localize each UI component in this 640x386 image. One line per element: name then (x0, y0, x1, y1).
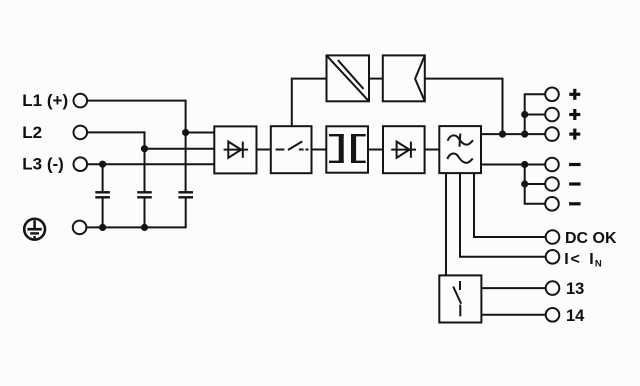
wire rectifier to switch (257, 149, 271, 151)
node earth-C1 junction (99, 224, 106, 231)
terminal plus2 (545, 108, 559, 122)
wire earth rail (87, 226, 186, 228)
wire L1 horizontal (87, 100, 186, 102)
transformer block T1 (326, 126, 368, 172)
svg-text:L3 (-): L3 (-) (22, 155, 64, 174)
terminal 14 (546, 308, 560, 322)
svg-text:I: I (589, 251, 593, 268)
terminal 13 (546, 281, 560, 295)
capacitor C2 (137, 192, 152, 197)
filter symbol upper sine with bar (448, 134, 473, 147)
node plus riser junction (521, 131, 528, 138)
wire filter to I<In terminal (460, 173, 546, 257)
switch block S1 (271, 126, 312, 173)
terminal minus3 (545, 197, 559, 211)
wire C3 bottom lead (185, 198, 187, 228)
wire plus middle branch (525, 114, 546, 116)
svg-text:L1 (+): L1 (+) (22, 91, 68, 110)
node plus bus top-branch junction (499, 131, 506, 138)
plus sign 1 (569, 89, 580, 100)
transformer symbol in T1 (329, 134, 366, 163)
node earth-C2 junction (141, 224, 148, 231)
terminal I<In (546, 250, 560, 264)
wire converter to chevron block (369, 78, 383, 80)
wire chevron block to output bus (425, 79, 503, 135)
relay block K1 (439, 275, 481, 322)
plus sign 2 (569, 109, 580, 120)
diode symbol in U1 (224, 142, 249, 158)
svg-text:<: < (571, 251, 580, 268)
wire filter to relay box (445, 173, 447, 275)
rectifier block U1 (214, 126, 256, 173)
minus sign 1 (569, 163, 581, 166)
terminal DC OK (546, 230, 560, 244)
terminal L1 (74, 94, 88, 108)
svg-text:L2: L2 (22, 123, 42, 142)
svg-text:14: 14 (566, 307, 585, 325)
chevron symbol in block B (415, 55, 425, 101)
wire filter to DC OK terminal (474, 173, 546, 237)
wire minus bus (481, 164, 545, 166)
wire relay to 14 (481, 314, 545, 316)
node L2-branch junction (141, 145, 148, 152)
wire plus riser (525, 94, 546, 134)
svg-text:13: 13 (566, 280, 584, 298)
capacitor C1 (95, 192, 110, 197)
minus sign 3 (569, 202, 581, 205)
terminal minus2 (545, 177, 559, 191)
terminal minus1 (545, 158, 559, 172)
chevron block B (383, 55, 425, 101)
wire relay to 13 (481, 287, 545, 289)
terminal earth (73, 221, 87, 235)
wire L2 branch into rectifier (145, 148, 215, 150)
slash symbol in block A (327, 55, 370, 101)
node minus riser junction (521, 161, 528, 168)
protective earth symbol (24, 219, 45, 240)
capacitor C3 (178, 192, 193, 197)
node minus middle junction (521, 180, 528, 187)
filter block F1 (439, 126, 481, 173)
terminal plus1 (545, 88, 559, 102)
wire C2 bottom lead (144, 198, 146, 227)
wire L2 vertical to C2 (144, 131, 146, 191)
wire L1 vertical to C3 (185, 100, 187, 192)
filter symbol lower sine (447, 154, 472, 163)
svg-text:I: I (564, 251, 568, 268)
wire plus bus (481, 133, 545, 135)
wire minus middle branch (525, 183, 546, 185)
wire C1 bottom lead (102, 198, 104, 227)
wire transformer to diode (368, 149, 383, 151)
diode block D1 (383, 126, 425, 173)
terminal L2 (74, 126, 88, 140)
wire diode to filter (425, 149, 440, 151)
svg-text:DC OK: DC OK (565, 230, 617, 247)
node L1-branch junction (182, 129, 189, 136)
minus sign 2 (569, 182, 581, 185)
relay contact symbol (453, 281, 461, 316)
wire switch to transformer (312, 149, 327, 151)
wire L1 branch into rectifier (186, 132, 215, 134)
plus sign 3 (569, 129, 580, 140)
wire minus riser (525, 165, 546, 204)
node L3 junction (99, 161, 106, 168)
terminal L3 (74, 157, 88, 171)
wire L2 horizontal (87, 131, 144, 133)
node plus middle junction (521, 111, 528, 118)
dc/dc converter block A (327, 55, 370, 101)
diode symbol in D1 (391, 142, 416, 158)
wire L3 horizontal into rectifier (87, 163, 214, 165)
svg-text:N: N (595, 259, 602, 270)
wire C1 top lead (102, 164, 104, 191)
switch symbol in S1 (276, 141, 309, 150)
terminal plus3 (545, 127, 559, 141)
wire switch top to converter (292, 79, 327, 127)
